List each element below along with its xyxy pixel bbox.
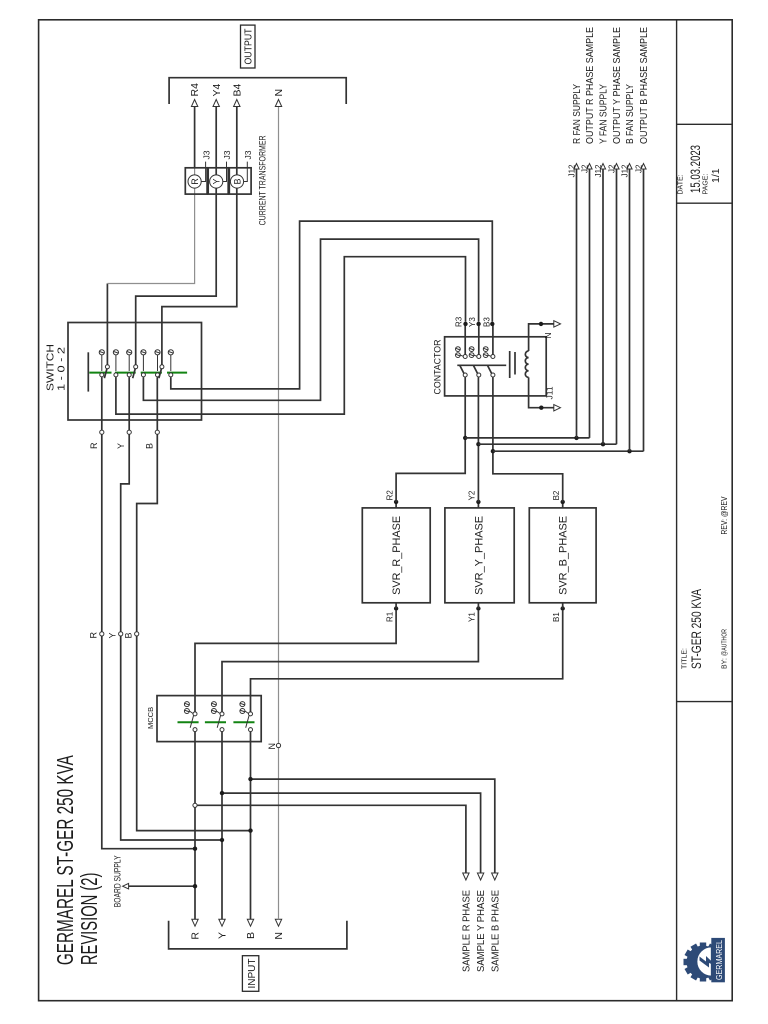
contactor pole B contacts	[483, 347, 495, 377]
port J12 B fan arrow	[627, 164, 632, 170]
contactor armature plates	[509, 351, 511, 378]
input port N arrow	[275, 919, 281, 926]
title strip divider 3	[677, 123, 733, 125]
switch pole1 pivot and lever	[104, 368, 107, 378]
wire R direct bypass	[102, 377, 195, 849]
node N net circle	[276, 743, 280, 747]
svg-text:1/1: 1/1	[710, 168, 722, 183]
junction coil N	[539, 322, 543, 326]
svg-text:B FAN SUPPLY: B FAN SUPPLY	[624, 84, 636, 144]
wire B4 to CT	[162, 168, 237, 365]
wire Y2 stub	[477, 502, 479, 508]
port J2 R sample arrow	[587, 164, 592, 170]
svg-text:J3: J3	[201, 150, 211, 159]
OUTPUT label box	[241, 25, 256, 68]
svg-text:J3: J3	[222, 150, 232, 159]
svg-text:Y: Y	[212, 178, 222, 184]
wire bypass pole1 to contactor R3	[116, 257, 466, 414]
junction R3	[463, 322, 467, 326]
wire B direct bypass	[137, 377, 251, 831]
svg-text:Y3: Y3	[468, 317, 477, 327]
INPUT bracket	[169, 921, 347, 949]
wire stub Y1	[477, 603, 479, 609]
wire pin R3	[464, 324, 466, 355]
input port B arrow	[247, 919, 253, 926]
node B net circle a	[135, 632, 139, 636]
junction R2 fan tap	[463, 436, 467, 440]
wire R4 CT interior	[194, 168, 196, 194]
CT B winding circle	[230, 175, 243, 188]
svg-text:R: R	[190, 178, 200, 185]
contactor pole R contacts	[456, 347, 468, 377]
MCCB pole Y contacts	[205, 702, 226, 732]
svg-text:SVR_B_PHASE: SVR_B_PHASE	[558, 516, 570, 595]
svg-text:J11: J11	[545, 386, 555, 399]
svg-text:GERMAREL ST-GER 250 KVA: GERMAREL ST-GER 250 KVA	[52, 755, 78, 965]
switch pins column	[99, 350, 173, 355]
current transformer CT-Y box	[208, 168, 228, 194]
sample R port arrow	[463, 873, 469, 880]
svg-text:CONTACTOR: CONTACTOR	[433, 339, 444, 394]
output port R4 arrow	[191, 100, 197, 107]
wire MCCB B out to SVR B1	[251, 611, 563, 712]
switch contact circles	[100, 355, 173, 377]
wire MCCB Y out to SVR Y1	[222, 611, 478, 712]
wire coil to N port	[529, 324, 554, 351]
wire N rail	[278, 106, 280, 919]
wire B2 stub	[562, 502, 564, 508]
node R net circle b	[100, 430, 104, 434]
port J2 B sample arrow	[641, 164, 646, 170]
junction sample B tap	[248, 777, 252, 781]
wire coil to J11 port	[529, 377, 554, 407]
svg-text:B2: B2	[552, 490, 561, 500]
node B net circle b	[155, 430, 159, 434]
port J12 R fan arrow	[574, 164, 579, 170]
svg-text:SAMPLE R PHASE: SAMPLE R PHASE	[461, 890, 472, 972]
svg-text:SAMPLE B PHASE: SAMPLE B PHASE	[490, 890, 501, 972]
wire B4 to output arrow	[236, 106, 238, 168]
wire bypass pole3 to contactor B3	[171, 221, 493, 389]
wire stub B1	[562, 603, 564, 609]
svg-text:R: R	[89, 632, 99, 639]
svg-text:J12: J12	[620, 164, 629, 177]
output port N arrow	[275, 100, 281, 107]
logo GERMAREL gear	[684, 938, 725, 982]
svg-text:@AUTHOR: @AUTHOR	[720, 629, 729, 656]
junction B3	[490, 322, 494, 326]
junction SVR B1 pin	[561, 606, 565, 610]
svg-text:PAGE:: PAGE:	[703, 174, 710, 195]
svg-text:1 - 0 - 2: 1 - 0 - 2	[56, 347, 68, 391]
wire Y input rail	[221, 731, 223, 919]
svg-text:Y2: Y2	[468, 490, 477, 500]
svg-text:CURRENT TRANSFORMER: CURRENT TRANSFORMER	[257, 135, 267, 225]
SVR_B_PHASE module box	[529, 508, 596, 603]
junction coil J11	[539, 406, 543, 410]
wire B input rail	[250, 731, 252, 919]
output port B4 arrow	[234, 100, 240, 107]
wire J12 R fan supply	[576, 169, 578, 438]
port J2 Y sample arrow	[614, 164, 619, 170]
node Y net circle b	[127, 430, 131, 434]
wire Y2 to contactor	[477, 377, 479, 502]
junction B direct on rail	[248, 828, 252, 832]
wire R4 grey link to CT	[107, 194, 194, 284]
svg-text:OUTPUT B PHASE SAMPLE: OUTPUT B PHASE SAMPLE	[638, 27, 650, 144]
svg-text:SVR_Y_PHASE: SVR_Y_PHASE	[473, 516, 485, 595]
output port Y4 arrow	[213, 100, 219, 107]
CT Y J3 pin	[223, 162, 227, 182]
SVR_Y_PHASE module box	[445, 508, 514, 603]
junction fan Y	[601, 442, 605, 446]
contactor linkage bar	[457, 364, 506, 366]
svg-text:B: B	[124, 632, 134, 638]
svg-text:B3: B3	[482, 317, 491, 327]
MCCB box	[157, 696, 261, 742]
wire sample B tap	[251, 779, 495, 873]
svg-text:OUTPUT: OUTPUT	[244, 29, 255, 65]
junction fan B	[627, 449, 631, 453]
svg-text:J12: J12	[567, 164, 576, 177]
svg-text:J2: J2	[634, 164, 643, 173]
CT B J3 pin	[243, 162, 247, 182]
junction SVR R1 pin	[394, 606, 398, 610]
BOARD SUPPLY arrow	[123, 883, 129, 889]
CT Y winding circle	[210, 175, 223, 188]
sample Y port arrow	[477, 873, 483, 880]
junction SVR Y1 pin	[476, 606, 480, 610]
svg-text:OUTPUT R PHASE SAMPLE: OUTPUT R PHASE SAMPLE	[584, 27, 596, 144]
title strip divider 1	[677, 701, 733, 703]
switch S1 box	[68, 323, 202, 421]
svg-text:N: N	[273, 932, 285, 940]
title strip top line	[676, 20, 678, 1001]
svg-text:R: R	[190, 932, 202, 940]
svg-text:J12: J12	[594, 164, 603, 177]
title strip divider 2	[677, 202, 733, 204]
wire Y4 to output arrow	[215, 106, 217, 168]
wire J12 Y fan supply	[602, 169, 604, 444]
sample B port arrow	[492, 873, 498, 880]
svg-text:B: B	[232, 178, 242, 184]
switch pole2 pivot and lever	[133, 368, 136, 378]
wire pin Y3	[478, 324, 480, 355]
junction Y2 pin	[476, 500, 480, 504]
junction Y2 fan tap	[476, 442, 480, 446]
contactor coil A1	[525, 351, 528, 377]
INPUT label box	[242, 956, 258, 992]
input port R arrow	[192, 919, 198, 926]
wire Y direct bypass	[121, 377, 222, 840]
wire B2 to contactor	[493, 377, 563, 502]
junction Y direct on rail	[220, 838, 224, 842]
svg-text:N: N	[267, 743, 277, 750]
wire J2 output B phase sample	[643, 169, 645, 451]
wire MCCB R out to SVR R1	[195, 611, 396, 712]
switch common bar	[87, 352, 89, 391]
svg-text:R3: R3	[455, 316, 464, 327]
svg-text:J2: J2	[580, 164, 589, 173]
junction fan R	[574, 436, 578, 440]
CT R winding circle	[188, 175, 201, 188]
wire R input rail	[194, 731, 196, 919]
switch pole3 pivot and lever	[159, 368, 162, 378]
wire stub R1	[395, 603, 397, 609]
svg-text:R4: R4	[189, 83, 201, 97]
wire pin B3	[492, 324, 494, 355]
wire J2 output Y phase sample	[616, 169, 618, 444]
svg-text:Y: Y	[116, 443, 126, 449]
SVR_R_PHASE module box	[362, 508, 430, 603]
svg-text:SVR_R_PHASE: SVR_R_PHASE	[391, 516, 403, 595]
junction Y3	[476, 322, 480, 326]
wire Y4 to CT	[136, 168, 217, 365]
wire R4 to output arrow	[194, 106, 196, 168]
svg-text:J2: J2	[607, 164, 616, 173]
svg-text:TITLE:: TITLE:	[682, 648, 689, 669]
svg-text:REV: @REV: REV: @REV	[720, 496, 729, 535]
svg-text:SAMPLE Y PHASE: SAMPLE Y PHASE	[476, 890, 487, 972]
svg-text:B4: B4	[231, 83, 243, 96]
wire board supply	[129, 885, 195, 887]
wire J2 output R phase sample	[589, 169, 591, 438]
svg-text:MCCB: MCCB	[146, 707, 155, 729]
wire R2 to contactor	[396, 377, 465, 502]
svg-text:Y1: Y1	[468, 612, 477, 622]
wire fan-sample drop B	[493, 450, 644, 452]
node sample R tap circle	[193, 803, 197, 807]
port J12 Y fan arrow	[600, 164, 605, 170]
CT R J3 pin	[201, 162, 206, 182]
svg-text:BY:: BY:	[722, 658, 729, 669]
svg-text:N: N	[543, 333, 553, 339]
svg-text:Y: Y	[108, 632, 118, 638]
svg-text:DATE:: DATE:	[678, 174, 685, 194]
svg-text:15.03.2023: 15.03.2023	[688, 145, 703, 193]
svg-text:Y: Y	[217, 932, 229, 939]
contactor pole Y contacts	[469, 347, 481, 377]
junction R direct on rail	[193, 847, 197, 851]
wire fan-sample drop R	[465, 437, 589, 439]
svg-text:GERMAREL: GERMAREL	[715, 940, 724, 980]
svg-text:N: N	[273, 89, 285, 97]
svg-text:Y FAN SUPPLY: Y FAN SUPPLY	[598, 84, 610, 144]
junction board supply	[193, 884, 197, 888]
svg-text:REVISION (2): REVISION (2)	[76, 873, 102, 966]
MCCB pole B contacts	[233, 702, 254, 732]
port N arrow down	[554, 321, 561, 327]
svg-text:R: R	[89, 442, 99, 449]
junction B2 pin	[561, 500, 565, 504]
wire sample R tap	[197, 805, 466, 873]
current transformer CT-R box	[185, 168, 207, 194]
wire R2 stub	[395, 502, 397, 508]
switch green commons	[89, 372, 111, 374]
junction R2 pin	[394, 500, 398, 504]
node R net circle a	[100, 632, 104, 636]
current transformer CT-B box	[229, 168, 251, 194]
svg-text:ST-GER 250 KVA: ST-GER 250 KVA	[689, 589, 704, 669]
wire bypass pole2 to contactor Y3	[143, 239, 478, 400]
svg-text:SWITCH: SWITCH	[44, 344, 56, 391]
svg-text:R1: R1	[385, 611, 394, 622]
svg-text:INPUT: INPUT	[247, 959, 258, 989]
svg-text:B: B	[245, 932, 257, 939]
OUTPUT bracket	[169, 78, 346, 104]
svg-text:Y4: Y4	[211, 83, 223, 96]
junction B2 fan tap	[491, 449, 495, 453]
svg-text:OUTPUT Y PHASE SAMPLE: OUTPUT Y PHASE SAMPLE	[611, 27, 623, 144]
MCCB pole R contacts	[178, 702, 199, 732]
svg-text:J3: J3	[243, 150, 253, 159]
input port Y arrow	[219, 919, 225, 926]
port J11 arrow down	[554, 405, 561, 411]
wire fan-sample drop Y	[478, 443, 616, 445]
node Y net circle a	[119, 632, 123, 636]
contactor K1 box	[445, 337, 547, 396]
wire J12 B fan supply	[629, 169, 631, 451]
junction sample Y tap	[220, 791, 224, 795]
svg-text:B: B	[144, 443, 154, 449]
svg-text:BOARD SUPPLY: BOARD SUPPLY	[112, 855, 122, 907]
wire sample Y tap	[222, 793, 481, 873]
svg-text:R FAN SUPPLY: R FAN SUPPLY	[571, 84, 583, 144]
wire R4 pivot feed	[106, 284, 108, 365]
svg-text:B1: B1	[552, 612, 561, 622]
svg-text:R2: R2	[385, 490, 394, 501]
